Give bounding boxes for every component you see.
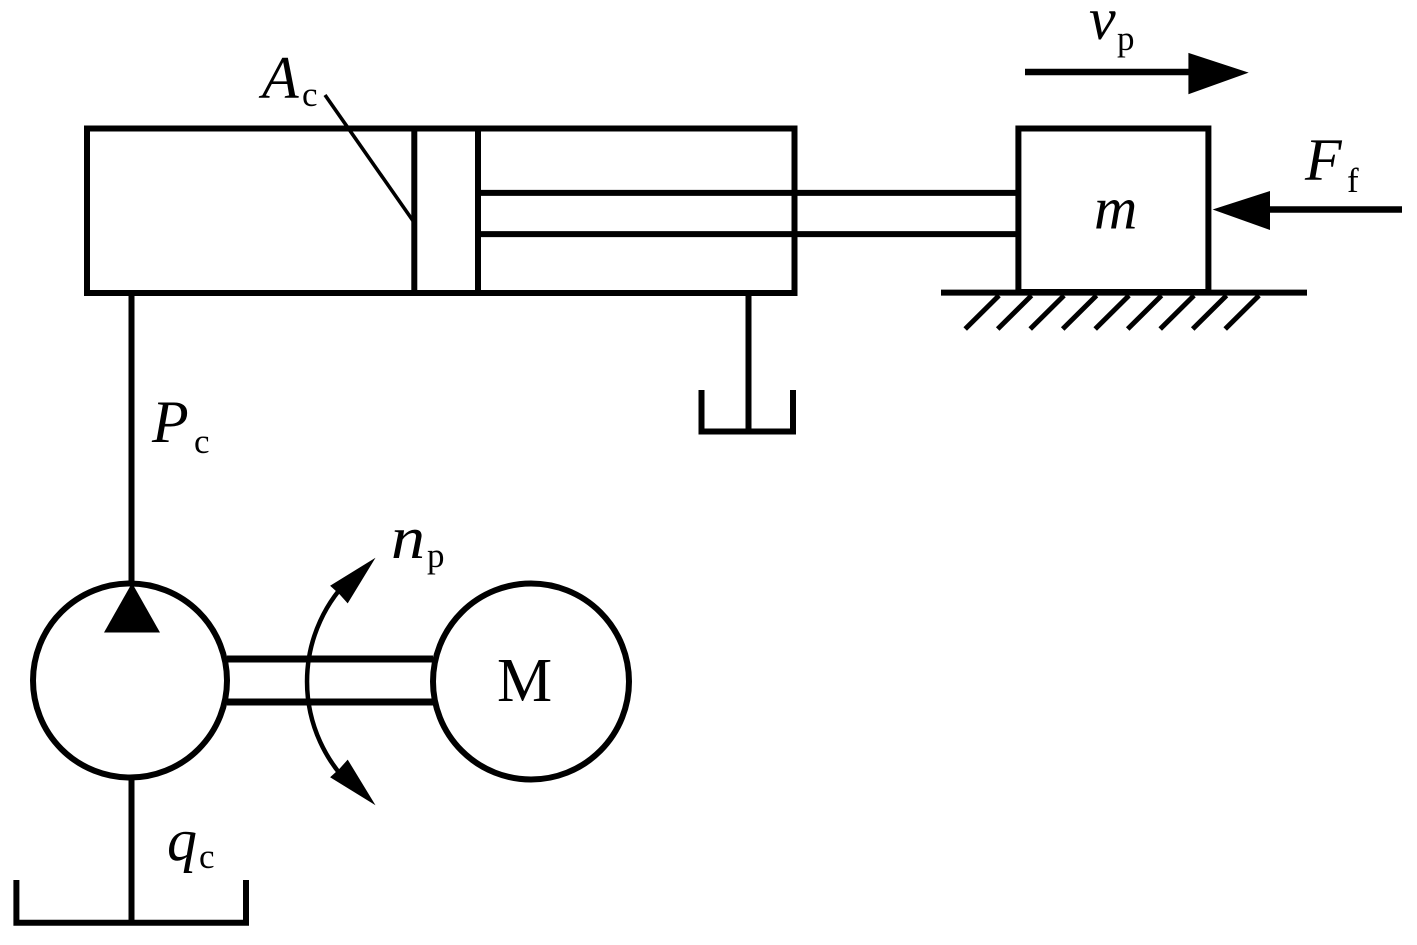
ground hatching <box>965 296 1259 330</box>
svg-text:v: v <box>1089 0 1116 52</box>
svg-text:P: P <box>151 389 189 455</box>
hydraulic cylinder body <box>87 129 795 294</box>
svg-text:c: c <box>199 837 215 876</box>
piston Ac (left face line) <box>411 129 417 294</box>
svg-text:p: p <box>1117 19 1135 58</box>
shaft upper line <box>227 656 433 663</box>
label q_c <box>167 807 215 876</box>
force arrow F_f head <box>1213 191 1270 230</box>
force arrow F_f shaft <box>1266 206 1402 213</box>
pipe q_c (pump to tank) <box>129 778 135 922</box>
label n_p <box>391 505 445 575</box>
leader line from Ac label to piston <box>325 95 414 222</box>
svg-text:n: n <box>391 505 425 571</box>
motor circle <box>433 584 629 780</box>
tank below pump <box>16 880 246 923</box>
svg-text:m: m <box>1094 176 1137 242</box>
svg-text:q: q <box>167 807 197 873</box>
pump circle <box>33 584 227 778</box>
pump flow-direction triangle <box>104 583 160 633</box>
pipe P_c (cylinder to pump) <box>129 290 135 584</box>
shaft lower line <box>227 699 433 706</box>
piston right face line <box>475 129 481 294</box>
svg-text:p: p <box>427 536 445 575</box>
svg-text:A: A <box>258 45 299 111</box>
svg-text:c: c <box>302 75 318 114</box>
svg-text:F: F <box>1304 127 1343 193</box>
piston rod lower line <box>478 231 1019 237</box>
svg-text:c: c <box>194 422 210 461</box>
label P_c <box>151 389 210 461</box>
label v_p <box>1089 0 1135 58</box>
piston rod upper line <box>478 190 1019 196</box>
drain pipe from cylinder <box>746 290 752 429</box>
velocity arrow v_p head <box>1188 53 1248 94</box>
ground line under mass <box>941 290 1307 296</box>
rotation arrow arc n_p <box>307 575 353 788</box>
label F_f <box>1304 127 1359 200</box>
rotation arrow top head <box>330 558 375 604</box>
label A_c <box>258 45 318 114</box>
mass m block <box>1018 129 1208 293</box>
svg-text:f: f <box>1347 161 1359 200</box>
rotation arrow bottom head <box>330 760 375 806</box>
velocity arrow v_p shaft <box>1025 69 1195 76</box>
svg-text:M: M <box>497 647 552 715</box>
tank below cylinder <box>702 390 794 432</box>
